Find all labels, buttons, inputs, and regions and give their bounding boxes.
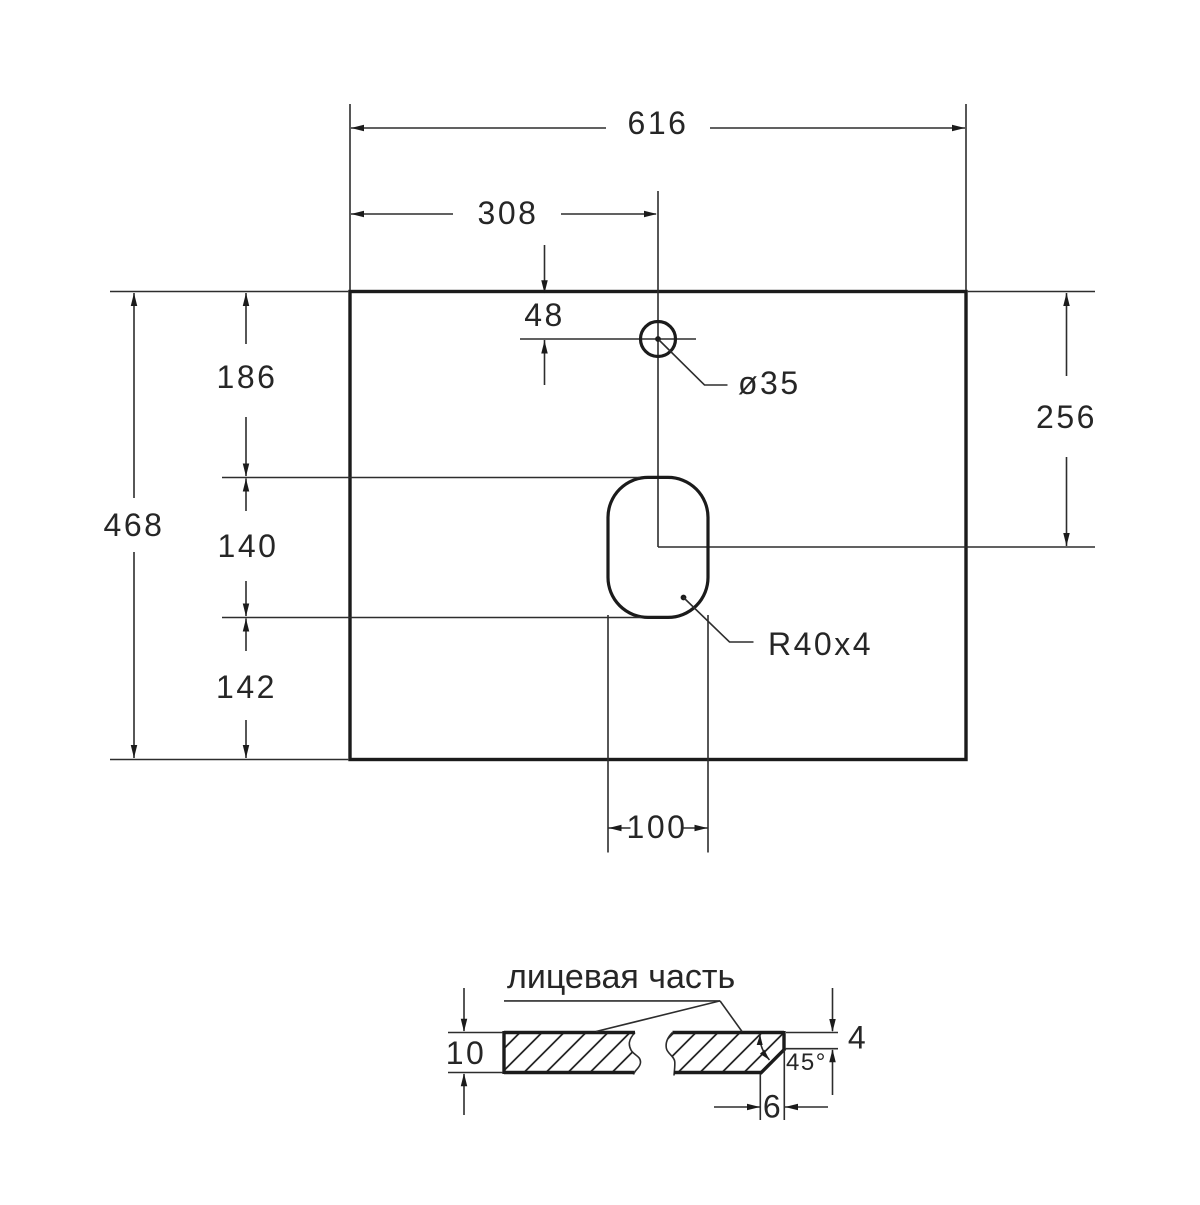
svg-text:лицевая часть: лицевая часть xyxy=(507,958,735,996)
dimension 100 xyxy=(608,615,708,853)
svg-text:308: 308 xyxy=(478,195,539,231)
label лицевая часть xyxy=(504,958,742,1032)
extension line y=477.5 xyxy=(222,477,640,479)
faucet hole ø35 xyxy=(641,322,676,357)
dimension 616 xyxy=(350,104,966,290)
horizontal centerline to right (256 reference) xyxy=(658,546,1095,548)
svg-text:6: 6 xyxy=(763,1089,783,1125)
dimension 10 xyxy=(446,988,503,1115)
svg-text:140: 140 xyxy=(218,528,279,564)
svg-text:186: 186 xyxy=(217,359,278,395)
extension line y=617.5 xyxy=(222,617,641,619)
dimension 140 xyxy=(218,479,279,617)
faucet hole centerline horizontal xyxy=(520,338,696,340)
svg-text:142: 142 xyxy=(216,669,277,705)
svg-text:100: 100 xyxy=(627,809,688,845)
dimension 308 xyxy=(351,195,657,231)
svg-text:616: 616 xyxy=(628,105,689,141)
svg-text:48: 48 xyxy=(524,297,565,333)
basin cutout R40x4 xyxy=(608,477,708,617)
label ø35 leader xyxy=(659,340,801,401)
svg-text:10: 10 xyxy=(446,1035,487,1071)
svg-text:ø35: ø35 xyxy=(738,365,801,401)
faucet hole centerline vertical xyxy=(657,191,659,547)
dimension 468 xyxy=(104,292,349,760)
svg-text:468: 468 xyxy=(104,507,165,543)
label R40x4 leader xyxy=(681,595,873,662)
section right slab xyxy=(666,1031,785,1076)
section left slab xyxy=(504,1031,641,1075)
svg-text:R40x4: R40x4 xyxy=(768,626,873,662)
dimension 186 xyxy=(217,293,278,477)
svg-text:45°: 45° xyxy=(786,1049,827,1076)
dimension 256 xyxy=(968,292,1097,547)
dimension 142 xyxy=(216,619,277,759)
dimension 4 xyxy=(785,988,868,1095)
dimension 48 xyxy=(524,245,565,385)
angle 45 dimension xyxy=(757,1035,827,1077)
svg-text:4: 4 xyxy=(848,1020,868,1056)
countertop outline xyxy=(350,292,966,760)
dimension 6 xyxy=(714,1050,828,1125)
svg-text:256: 256 xyxy=(1036,399,1097,435)
